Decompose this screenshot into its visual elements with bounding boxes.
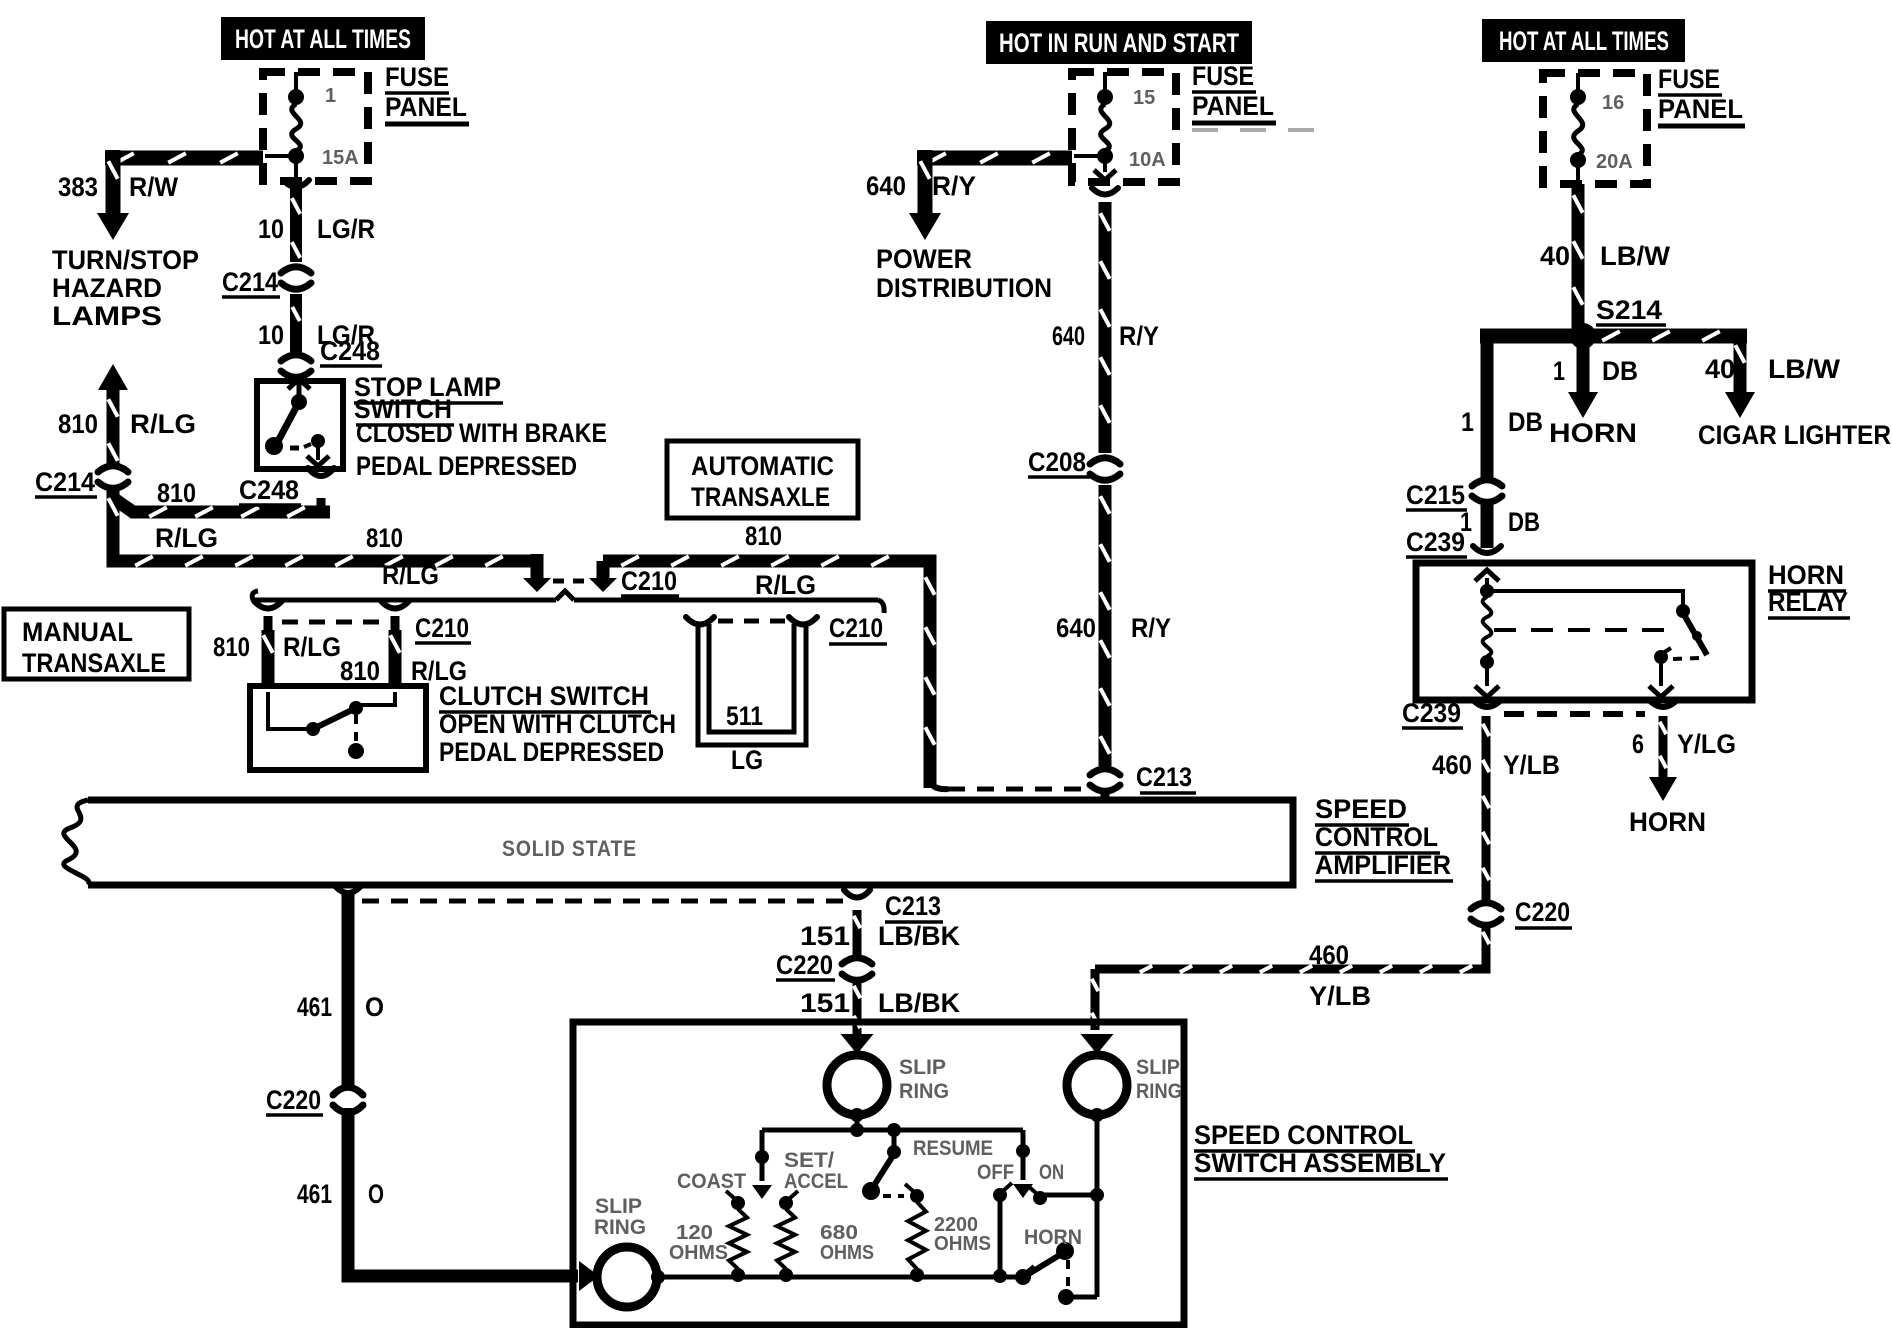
svg-text:10: 10	[258, 320, 284, 350]
label SET/ACCEL	[784, 1149, 848, 1193]
svg-text:PEDAL DEPRESSED: PEDAL DEPRESSED	[439, 737, 664, 767]
label SLIP RING 1	[899, 1056, 949, 1103]
connector C210 (511 loop right)	[789, 617, 817, 625]
label SPEED CONTROL AMPLIFIER	[1315, 794, 1453, 881]
label 810 R/LG (clutch left)	[213, 632, 341, 662]
label 383	[58, 172, 98, 202]
on contact wire	[1040, 1188, 1104, 1202]
svg-text:SPEED: SPEED	[1315, 794, 1407, 824]
coast contact	[726, 1191, 745, 1210]
horn relay linkage dashed line	[1494, 628, 1678, 632]
wire 1 DB (S214 to horn arrow)	[1568, 344, 1598, 418]
label 640 (arrow)	[866, 171, 906, 201]
svg-text:HOT IN RUN AND START: HOT IN RUN AND START	[999, 28, 1239, 58]
connector C215	[1469, 480, 1505, 503]
label 120 OHMS	[669, 1222, 728, 1264]
svg-text:15A: 15A	[322, 147, 359, 169]
horn relay switch blade	[1683, 613, 1707, 655]
label 460 Y/LB (vertical)	[1432, 750, 1560, 780]
svg-text:680: 680	[820, 1222, 858, 1244]
arrowhead C210 left half	[523, 578, 551, 592]
fuse F3 label 16	[1602, 92, 1624, 114]
wire 1 DB (C215 to C239)	[1481, 504, 1494, 548]
label R/W	[129, 172, 178, 202]
svg-text:PANEL: PANEL	[1192, 91, 1274, 121]
label S214	[1596, 295, 1666, 325]
svg-text:Y/LG: Y/LG	[1677, 729, 1736, 759]
connector C220 (461 wire)	[330, 1087, 366, 1112]
jumper loop 511 inner	[709, 624, 794, 732]
svg-text:640: 640	[1056, 613, 1096, 643]
svg-text:SOLID STATE: SOLID STATE	[502, 836, 637, 861]
label 151 LB/BK (upper)	[800, 921, 960, 951]
svg-text:PANEL: PANEL	[1658, 94, 1743, 124]
wire 810 R/LG (clutch right drop)	[390, 630, 399, 687]
on contact	[1028, 1186, 1047, 1205]
slip ring 2 bottom dot	[1090, 1108, 1104, 1122]
connector C210 (511 loop left)	[686, 617, 714, 625]
slip ring 2 entry arrow	[1081, 1034, 1114, 1054]
svg-text:R/LG: R/LG	[755, 570, 816, 600]
label Y/LB (horizontal)	[1309, 981, 1371, 1011]
svg-text:PEDAL DEPRESSED: PEDAL DEPRESSED	[356, 451, 577, 481]
dashed link 810/640 into C213	[930, 780, 1086, 789]
svg-text:CLOSED WITH BRAKE: CLOSED WITH BRAKE	[356, 418, 607, 448]
svg-text:15: 15	[1133, 87, 1155, 109]
svg-text:810: 810	[745, 521, 782, 551]
svg-text:383: 383	[58, 172, 98, 202]
label HORN (switch)	[1024, 1226, 1082, 1249]
svg-text:C213: C213	[1136, 762, 1192, 792]
svg-text:COAST: COAST	[677, 1170, 746, 1193]
speed control switch assembly box	[573, 1022, 1184, 1325]
svg-text:HOT AT ALL TIMES: HOT AT ALL TIMES	[235, 24, 411, 54]
svg-text:CONTROL: CONTROL	[1315, 822, 1438, 852]
svg-text:LB/W: LB/W	[1768, 354, 1841, 384]
fuse F1 (fuse 1, 15A)	[265, 72, 304, 183]
connector C220 (151 wire)	[839, 958, 875, 981]
svg-text:16: 16	[1602, 92, 1624, 114]
label 461 O (lower)	[297, 1179, 384, 1209]
label 1 DB (upper segment)	[1461, 407, 1543, 437]
svg-text:OFF: OFF	[977, 1161, 1014, 1184]
wire 640 R/Y horizontal bar	[917, 153, 1072, 162]
resume contact (2200)	[905, 1184, 924, 1203]
header box HOT IN RUN AND START	[986, 21, 1252, 64]
svg-text:SWITCH ASSEMBLY: SWITCH ASSEMBLY	[1194, 1148, 1446, 1178]
svg-text:HORN: HORN	[1024, 1226, 1082, 1249]
svg-text:C215: C215	[1406, 480, 1465, 510]
arrow into slip ring (bottom left)	[579, 1261, 599, 1291]
off/on switch drop	[1013, 1130, 1033, 1198]
slip ring 3 output dot	[651, 1270, 665, 1284]
svg-text:LB/W: LB/W	[1600, 241, 1671, 271]
arrowhead C210 right half	[589, 561, 617, 592]
svg-text:RING: RING	[594, 1216, 646, 1239]
svg-text:DB: DB	[1508, 407, 1543, 437]
svg-text:LB/BK: LB/BK	[878, 988, 960, 1018]
connector C213 (151 wire)	[844, 890, 870, 898]
svg-text:C214: C214	[222, 267, 278, 297]
label 2200 OHMS	[934, 1214, 991, 1255]
horn switch contact dot	[1058, 1289, 1097, 1305]
label OFF	[977, 1161, 1014, 1184]
horn relay coil winding	[1483, 597, 1492, 656]
header box HOT AT ALL TIMES (left)	[221, 17, 425, 60]
wire 40 LB/W (fuse3 to S214)	[1573, 184, 1582, 330]
svg-text:C210: C210	[415, 613, 469, 643]
svg-text:R/LG: R/LG	[382, 560, 439, 590]
fuse panel 2 dashed box	[1072, 72, 1176, 182]
svg-text:1: 1	[325, 85, 336, 107]
wire 810 R/LG up arrow (to C214 left)	[98, 364, 128, 464]
wire 40 LB/W (S214 to cigar lighter)	[1725, 336, 1755, 418]
fuse F2 label 15	[1133, 87, 1155, 109]
svg-text:SLIP: SLIP	[1136, 1056, 1180, 1079]
svg-text:AUTOMATIC: AUTOMATIC	[691, 451, 834, 481]
label 680 OHMS	[820, 1222, 874, 1264]
svg-text:ON: ON	[1039, 1161, 1064, 1184]
dashed output interface line (below amplifier)	[362, 899, 845, 904]
label 461 O (upper)	[297, 992, 384, 1022]
svg-text:6: 6	[1632, 729, 1644, 759]
connector C213 (into amplifier)	[1087, 769, 1123, 799]
horn switch dashed throw	[1066, 1260, 1070, 1288]
connector C248 (below stop lamp switch)	[308, 468, 334, 476]
horn relay switch dashed throw	[1673, 658, 1700, 659]
svg-text:R/Y: R/Y	[1131, 613, 1171, 643]
manual transaxle label box	[4, 609, 189, 679]
wire 461 O (C220 to switch assembly)	[348, 1108, 578, 1276]
horn relay output dot	[1654, 648, 1671, 664]
label HORN (lower)	[1629, 807, 1706, 837]
horn relay coil bottom dot	[1480, 655, 1494, 669]
svg-text:C239: C239	[1402, 698, 1461, 728]
horn relay coil input arrow	[1475, 570, 1499, 588]
rail junction dot (resume)	[887, 1123, 901, 1137]
svg-text:LG/R: LG/R	[317, 214, 375, 244]
svg-text:LAMPS: LAMPS	[52, 301, 162, 331]
label C220 (right)	[1515, 897, 1572, 928]
label 810 R/LG (clutch right)	[340, 656, 467, 686]
svg-text:Y/LB: Y/LB	[1503, 750, 1560, 780]
svg-text:RESUME: RESUME	[913, 1137, 993, 1160]
bottom bus rail	[658, 1275, 1023, 1280]
off contact	[993, 1183, 1012, 1202]
label 810 (short bar)	[157, 478, 196, 508]
svg-text:40: 40	[1540, 241, 1570, 271]
wire 810 R/LG long bar (C214 to C210)	[108, 489, 537, 578]
resistor R1 120 ohms	[729, 1209, 747, 1269]
svg-text:640: 640	[866, 171, 906, 201]
label SOLID STATE	[502, 836, 637, 861]
slip ring 1 bottom dot	[850, 1108, 864, 1127]
horn relay coil top dot	[1480, 584, 1494, 598]
clutch switch box	[250, 686, 426, 770]
label C213 (151 wire)	[885, 891, 943, 922]
label C210 (511 loop)	[829, 613, 887, 644]
svg-text:O: O	[365, 992, 384, 1022]
svg-text:FUSE: FUSE	[1658, 64, 1720, 94]
fuse F1 label 1	[325, 85, 336, 107]
connector C210 (clutch right)	[381, 601, 409, 634]
svg-text:DB: DB	[1508, 507, 1540, 537]
label OPEN WITH CLUTCH PEDAL DEPRESSED	[439, 709, 676, 767]
label SLIP RING 3	[594, 1195, 646, 1239]
label C213 (amplifier top)	[1136, 762, 1196, 793]
connector C210 dashed interface (clutch)	[282, 620, 382, 625]
label FUSE PANEL (right)	[1658, 64, 1745, 126]
horn relay box	[1416, 563, 1752, 700]
connector C220 (right)	[1468, 903, 1504, 926]
bus dot R3	[910, 1268, 924, 1282]
svg-text:810: 810	[157, 478, 196, 508]
clutch switch blade	[313, 708, 356, 729]
header box HOT AT ALL TIMES (right)	[1482, 19, 1685, 62]
connector C214 (fuse wire)	[278, 267, 314, 290]
connector C210 dashed interface (511 loop)	[718, 619, 786, 624]
bus dot OFF	[993, 1269, 1007, 1283]
label CLOSED WITH BRAKE PEDAL DEPRESSED	[356, 418, 607, 481]
svg-text:CLUTCH SWITCH: CLUTCH SWITCH	[439, 681, 649, 711]
stop lamp switch contact arrow up	[288, 379, 310, 396]
label POWER DISTRIBUTION	[876, 244, 1052, 303]
svg-text:40: 40	[1705, 354, 1735, 384]
svg-text:640: 640	[1052, 321, 1085, 351]
upper contact rail	[762, 1128, 1023, 1133]
label 1 DB (horn arrow)	[1553, 356, 1638, 386]
stop lamp switch dashed throw	[290, 446, 304, 451]
label HORN RELAY	[1768, 560, 1850, 618]
resume switch branch	[887, 1135, 901, 1159]
svg-text:MANUAL: MANUAL	[22, 617, 133, 647]
svg-text:460: 460	[1432, 750, 1472, 780]
svg-text:AMPLIFIER: AMPLIFIER	[1315, 850, 1451, 880]
label 151 LB/BK (lower)	[800, 988, 960, 1018]
label C220 (151 wire)	[776, 950, 835, 980]
svg-text:20A: 20A	[1596, 151, 1633, 173]
label COAST	[677, 1170, 746, 1193]
svg-text:SET/: SET/	[784, 1149, 834, 1172]
svg-text:151: 151	[800, 921, 850, 951]
wire 151 LB/BK (C220 into switch assembly)	[854, 982, 861, 1035]
connector C239 (below relay right)	[1649, 700, 1677, 707]
svg-text:R/W: R/W	[129, 172, 178, 202]
label 10 LG/R upper	[258, 214, 375, 244]
svg-text:HOT AT ALL TIMES: HOT AT ALL TIMES	[1499, 26, 1669, 56]
label CLUTCH SWITCH	[439, 681, 651, 712]
svg-text:C213: C213	[885, 891, 941, 921]
label 511	[726, 701, 763, 731]
wire 640 R/Y (fuse2 to C208)	[1092, 188, 1118, 453]
fuse F2 label 10A	[1129, 149, 1166, 171]
wire R/LG manual-transaxle thin line	[252, 591, 884, 613]
label RESUME	[913, 1137, 993, 1160]
label TURN/STOP HAZARD LAMPS	[52, 245, 199, 331]
svg-text:RING: RING	[899, 1080, 949, 1103]
svg-text:O: O	[368, 1179, 384, 1209]
svg-text:SLIP: SLIP	[595, 1195, 642, 1218]
svg-text:R/Y: R/Y	[932, 171, 976, 201]
bus dot R1	[731, 1268, 745, 1282]
fuse F1 label 15A	[322, 147, 359, 169]
bus dot R2	[779, 1268, 793, 1282]
label C214	[222, 267, 280, 297]
svg-text:C248: C248	[239, 475, 299, 505]
svg-text:HORN: HORN	[1629, 807, 1706, 837]
svg-text:511: 511	[726, 701, 763, 731]
label HORN (upper)	[1549, 418, 1637, 448]
resume switch blade	[862, 1154, 894, 1200]
label 810 R/LG (left column)	[58, 409, 196, 439]
label R/LG (below long bar)	[382, 560, 439, 590]
label R/LG (long bar left)	[155, 523, 218, 553]
wire 640 R/Y down arrow to power distribution	[909, 150, 941, 240]
wire 10 LG/R (fuse1 to C214)	[283, 180, 309, 262]
svg-text:C210: C210	[621, 566, 677, 596]
svg-text:TRANSAXLE: TRANSAXLE	[691, 482, 830, 512]
set contact	[779, 1191, 798, 1210]
svg-text:ACCEL: ACCEL	[784, 1170, 848, 1193]
wire 10 LG/R (C214 to C248)	[292, 294, 300, 352]
label C210 (clutch)	[415, 613, 471, 643]
svg-text:HORN: HORN	[1549, 418, 1637, 448]
off contact to bus	[998, 1199, 1003, 1276]
svg-text:RELAY: RELAY	[1768, 587, 1848, 617]
label C239 (bottom)	[1402, 698, 1463, 728]
svg-text:R/LG: R/LG	[130, 409, 196, 439]
svg-text:151: 151	[800, 988, 850, 1018]
svg-text:10A: 10A	[1129, 149, 1166, 171]
rail junction dot (slip ring 1)	[850, 1123, 864, 1137]
svg-text:LG: LG	[731, 745, 763, 775]
wire 810 right bar (to automatic transaxle drop)	[603, 556, 935, 788]
svg-text:TURN/STOP: TURN/STOP	[52, 245, 199, 275]
svg-text:810: 810	[340, 656, 380, 686]
automatic transaxle label box	[667, 441, 858, 518]
svg-text:SLIP: SLIP	[899, 1056, 946, 1079]
wire 461 O (amplifier to C220)	[335, 886, 361, 1086]
svg-text:460: 460	[1309, 940, 1349, 970]
label C214 (left)	[35, 467, 97, 497]
svg-text:FUSE: FUSE	[1192, 61, 1254, 91]
horn relay output arrow	[1649, 662, 1673, 697]
svg-text:C220: C220	[266, 1085, 321, 1115]
svg-text:461: 461	[297, 992, 332, 1022]
stop lamp switch box	[257, 381, 343, 469]
svg-text:C208: C208	[1028, 447, 1086, 477]
connector C214 (left)	[95, 466, 131, 489]
connector C210 dashes (middle junction)	[553, 579, 585, 584]
svg-text:SPEED CONTROL: SPEED CONTROL	[1194, 1120, 1413, 1150]
svg-text:FUSE: FUSE	[385, 62, 449, 92]
svg-text:TRANSAXLE: TRANSAXLE	[22, 648, 166, 678]
wire 6 Y/LG (relay to horn)	[1649, 716, 1677, 801]
svg-text:C210: C210	[829, 613, 883, 643]
svg-text:OPEN WITH CLUTCH: OPEN WITH CLUTCH	[439, 709, 676, 739]
wire 460 Y/LB (relay to C220)	[1483, 716, 1490, 900]
stop lamp switch output terminal	[304, 434, 329, 466]
svg-text:CIGAR LIGHTER: CIGAR LIGHTER	[1698, 420, 1891, 450]
svg-text:PANEL: PANEL	[385, 92, 467, 122]
svg-text:OHMS: OHMS	[820, 1242, 874, 1264]
label ON	[1039, 1161, 1064, 1184]
label R/Y (arrow)	[932, 171, 976, 201]
wire slip ring 2 to horn contact	[1095, 1115, 1100, 1297]
svg-text:461: 461	[297, 1179, 332, 1209]
svg-text:C214: C214	[35, 467, 95, 497]
label 40 LB/W (vertical)	[1540, 241, 1671, 271]
wire 640 R/Y (C208 to C213)	[1100, 485, 1109, 766]
slip ring 2 (top right)	[1067, 1055, 1127, 1115]
svg-text:LB/BK: LB/BK	[878, 921, 960, 951]
connector C208	[1087, 458, 1123, 481]
svg-text:DB: DB	[1602, 356, 1638, 386]
svg-text:C220: C220	[776, 950, 833, 980]
connector C239 dashed interface	[1504, 711, 1645, 717]
label C208	[1028, 447, 1090, 477]
resume switch dashed throw	[883, 1194, 904, 1198]
svg-text:1: 1	[1553, 356, 1565, 386]
stop lamp switch blade	[265, 402, 299, 455]
label LG	[731, 745, 763, 775]
label FUSE PANEL (left)	[385, 62, 469, 124]
fuse F3 (fuse 16, 20A)	[1570, 73, 1586, 184]
slip ring 3 (bottom left)	[597, 1247, 657, 1307]
svg-text:HAZARD: HAZARD	[52, 273, 162, 303]
fuse F3 label 20A	[1596, 151, 1633, 173]
label 810 (long bar)	[366, 523, 403, 553]
horn relay coil output arrow	[1475, 668, 1499, 697]
resistor R3 2200 ohms	[908, 1202, 926, 1269]
svg-text:OHMS: OHMS	[934, 1233, 991, 1255]
clutch switch internal wiring	[268, 692, 395, 729]
set/accel switch drop	[752, 1130, 772, 1199]
svg-text:C220: C220	[1515, 897, 1570, 927]
label C210 (middle junction)	[621, 566, 679, 596]
fuse panel 1 dashed box	[263, 72, 368, 181]
svg-text:R/Y: R/Y	[1119, 321, 1159, 351]
speed control amplifier box	[64, 800, 1293, 885]
svg-text:120: 120	[676, 1222, 713, 1244]
connector C210 (clutch left)	[254, 601, 282, 634]
wire 151 LB/BK (C213 to C220)	[854, 910, 861, 956]
svg-text:Y/LB: Y/LB	[1309, 981, 1371, 1011]
label FUSE PANEL (middle)	[1192, 61, 1276, 123]
wire 810 branch to C248 (short bar)	[113, 489, 330, 517]
svg-text:DISTRIBUTION: DISTRIBUTION	[876, 273, 1052, 303]
svg-text:810: 810	[213, 632, 250, 662]
label 1 DB (lower segment)	[1460, 507, 1540, 537]
label SPEED CONTROL SWITCH ASSEMBLY	[1194, 1120, 1448, 1179]
svg-text:RING: RING	[1136, 1080, 1182, 1103]
connector C239 (below relay left)	[1473, 700, 1501, 707]
horn relay switch pivot dot	[1676, 604, 1690, 618]
label C239 (top)	[1406, 527, 1467, 557]
wire 1 DB (S214 down to C215)	[1481, 336, 1494, 478]
connector C248 (into stop lamp switch)	[278, 355, 314, 378]
label C215	[1406, 480, 1467, 510]
fuse panel 3 dashed box	[1543, 73, 1647, 184]
resistor R2 680 ohms	[777, 1209, 795, 1269]
splice S214 bar	[1480, 331, 1747, 340]
label C220 (461 wire)	[266, 1085, 323, 1115]
splice S214 dot	[1570, 323, 1596, 349]
jumper loop 511 outer	[698, 622, 806, 745]
label 640 R/Y (lower)	[1056, 613, 1171, 643]
svg-text:C239: C239	[1406, 527, 1465, 557]
connector C239 (top of relay)	[1473, 546, 1501, 553]
